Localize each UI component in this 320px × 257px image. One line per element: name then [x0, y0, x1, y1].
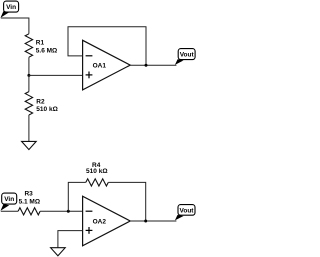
junction OA2 output/feedback — [144, 220, 147, 223]
ground (below R2) — [22, 141, 37, 149]
wire Vin to R1 top — [1, 18, 29, 34]
wire R3 right to OA2 - input — [40, 210, 83, 212]
wire OA2 output to Vout — [130, 220, 176, 222]
net flag Vout (top output) — [175, 49, 195, 65]
svg-text:510 kΩ: 510 kΩ — [36, 106, 57, 113]
net flag Vin (top input) — [1, 1, 19, 18]
op-amp OA1 — [83, 40, 131, 90]
label R2 value 510 kΩ — [36, 98, 57, 113]
svg-text:Vin: Vin — [6, 4, 16, 11]
svg-text:510 kΩ: 510 kΩ — [86, 168, 107, 175]
net flag Vout (bottom output) — [175, 205, 195, 221]
wire R1 bottom to node A — [28, 57, 30, 75]
junction node B (R3/R4/OA2-) — [67, 210, 70, 213]
svg-text:Vin: Vin — [4, 196, 14, 203]
svg-text:R1: R1 — [36, 39, 45, 46]
junction OA1 output/feedback — [145, 64, 148, 67]
wire R2 bottom to ground — [28, 115, 30, 141]
svg-text:5.1 MΩ: 5.1 MΩ — [19, 199, 40, 206]
svg-text:OA2: OA2 — [93, 219, 107, 226]
svg-text:R3: R3 — [24, 191, 33, 198]
wire node A to R2 top — [28, 75, 30, 91]
wire R4 right down to OA2 output — [108, 182, 145, 221]
svg-text:Vout: Vout — [180, 208, 195, 215]
label R4 value 510 kΩ — [86, 162, 107, 175]
label R3 value 5.1 MΩ — [19, 191, 40, 206]
svg-text:5.6 MΩ: 5.6 MΩ — [36, 47, 57, 54]
wire OA2 + input to ground — [58, 231, 83, 248]
label R1 value 5.6 MΩ — [36, 39, 57, 54]
svg-text:R2: R2 — [36, 98, 45, 105]
op-amp OA2 — [83, 196, 131, 246]
resistor R2 — [25, 92, 32, 115]
junction node A (R1/R2/OA1+) — [27, 74, 30, 77]
resistor R3 — [18, 208, 40, 215]
svg-text:Vout: Vout — [180, 52, 195, 59]
resistor R1 — [25, 34, 32, 57]
wire Vin to R3 left — [1, 210, 18, 212]
wire node B up to R4 left — [68, 182, 86, 211]
wire OA1 feedback (output to - input) — [68, 27, 146, 65]
net flag Vin (bottom input) — [1, 193, 17, 211]
ground (below OA2 + input) — [51, 248, 66, 256]
wire node A to OA1 + input — [29, 74, 83, 76]
wire OA1 output to Vout — [130, 64, 176, 66]
svg-text:OA1: OA1 — [93, 63, 107, 70]
resistor R4 — [86, 179, 109, 186]
